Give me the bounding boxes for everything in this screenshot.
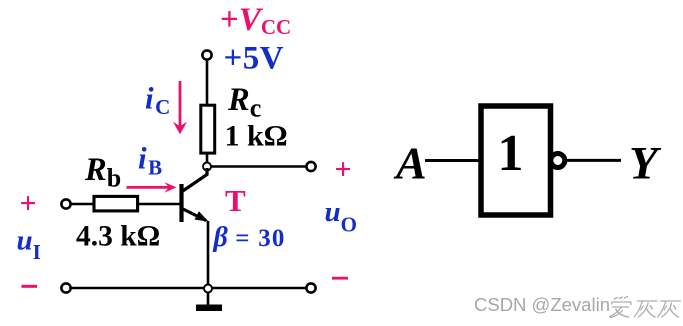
svg-text:A: A xyxy=(393,138,427,189)
transistor T collector lead xyxy=(182,168,207,192)
svg-text:T: T xyxy=(225,183,246,218)
wire bottom rail xyxy=(71,287,306,290)
wire emitter to ground rail xyxy=(207,221,210,285)
wire Rb to base xyxy=(137,203,180,206)
current arrow iB xyxy=(127,182,177,192)
node collector xyxy=(203,163,211,171)
svg-text:1: 1 xyxy=(498,125,524,182)
wire Rc to collector node xyxy=(206,153,209,163)
terminal output plus xyxy=(306,162,315,171)
node emitter junction xyxy=(204,285,212,293)
gate U1 inversion bubble xyxy=(551,154,565,168)
wire VCC to Rc xyxy=(206,60,209,105)
label minus output xyxy=(332,277,348,280)
wire gate input xyxy=(425,159,479,162)
svg-text:Y: Y xyxy=(629,138,662,190)
svg-text:+5V: +5V xyxy=(224,41,285,77)
wire gate output xyxy=(566,159,621,162)
svg-text:4.3 kΩ: 4.3 kΩ xyxy=(76,221,160,253)
resistor Rc xyxy=(201,105,215,153)
resistor Rb xyxy=(94,196,138,211)
label minus input xyxy=(22,285,38,288)
terminal input plus xyxy=(61,199,70,208)
wire collector node to output terminal xyxy=(211,165,307,168)
svg-text:+: + xyxy=(334,153,351,186)
current arrow iC xyxy=(173,81,187,134)
svg-text:β = 30: β = 30 xyxy=(213,222,286,253)
transistor T base bar xyxy=(179,184,183,222)
svg-text:1 kΩ: 1 kΩ xyxy=(225,120,288,153)
gate U1 NOT box xyxy=(481,106,551,215)
wire input to Rb xyxy=(71,203,94,206)
transistor T emitter lead with arrow xyxy=(182,209,209,222)
ground xyxy=(196,293,222,312)
watermark xyxy=(474,294,681,318)
svg-text:+: + xyxy=(19,187,36,220)
terminal output minus xyxy=(306,283,315,292)
terminal input minus xyxy=(61,283,70,292)
terminal VCC xyxy=(202,50,211,59)
svg-text:CSDN @Zevalin: CSDN @Zevalin xyxy=(474,294,610,315)
